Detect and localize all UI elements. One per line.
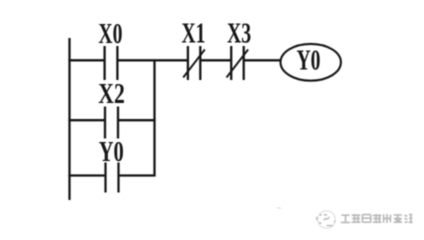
svg-text:X1: X1 — [182, 18, 206, 49]
svg-text:X0: X0 — [98, 19, 122, 50]
watermark text 工控自动化交流 — [341, 214, 413, 223]
wire X2 to node — [118, 119, 156, 121]
contact X0 (normally open) — [105, 46, 118, 80]
svg-text:Y0: Y0 — [99, 137, 124, 168]
node junction vertical wire — [153, 60, 155, 175]
watermark artifact dash — [277, 208, 281, 209]
contact X1 (normally closed) — [183, 46, 205, 80]
wire Y0 contact to node — [119, 174, 156, 176]
svg-text:X2: X2 — [98, 79, 125, 110]
left power rail — [68, 38, 70, 200]
contact X3 (normally closed) — [227, 46, 249, 80]
wire X3 to coil — [244, 59, 281, 61]
coil Y0 ellipse — [281, 44, 341, 81]
svg-text:Y0: Y0 — [297, 45, 321, 76]
svg-text:X3: X3 — [227, 18, 251, 49]
wire branch3 rail to Y0 contact — [68, 174, 105, 176]
watermark logo circle — [317, 211, 336, 228]
wire rung1 rail to X0 — [68, 59, 104, 61]
wire branch2 rail to X2 — [68, 119, 105, 121]
wire X1 to X3 — [200, 59, 231, 61]
wire X0 to X1 through node — [117, 59, 187, 61]
contact Y0 (normally open) — [106, 163, 119, 193]
contact X2 (normally open) — [105, 107, 118, 139]
